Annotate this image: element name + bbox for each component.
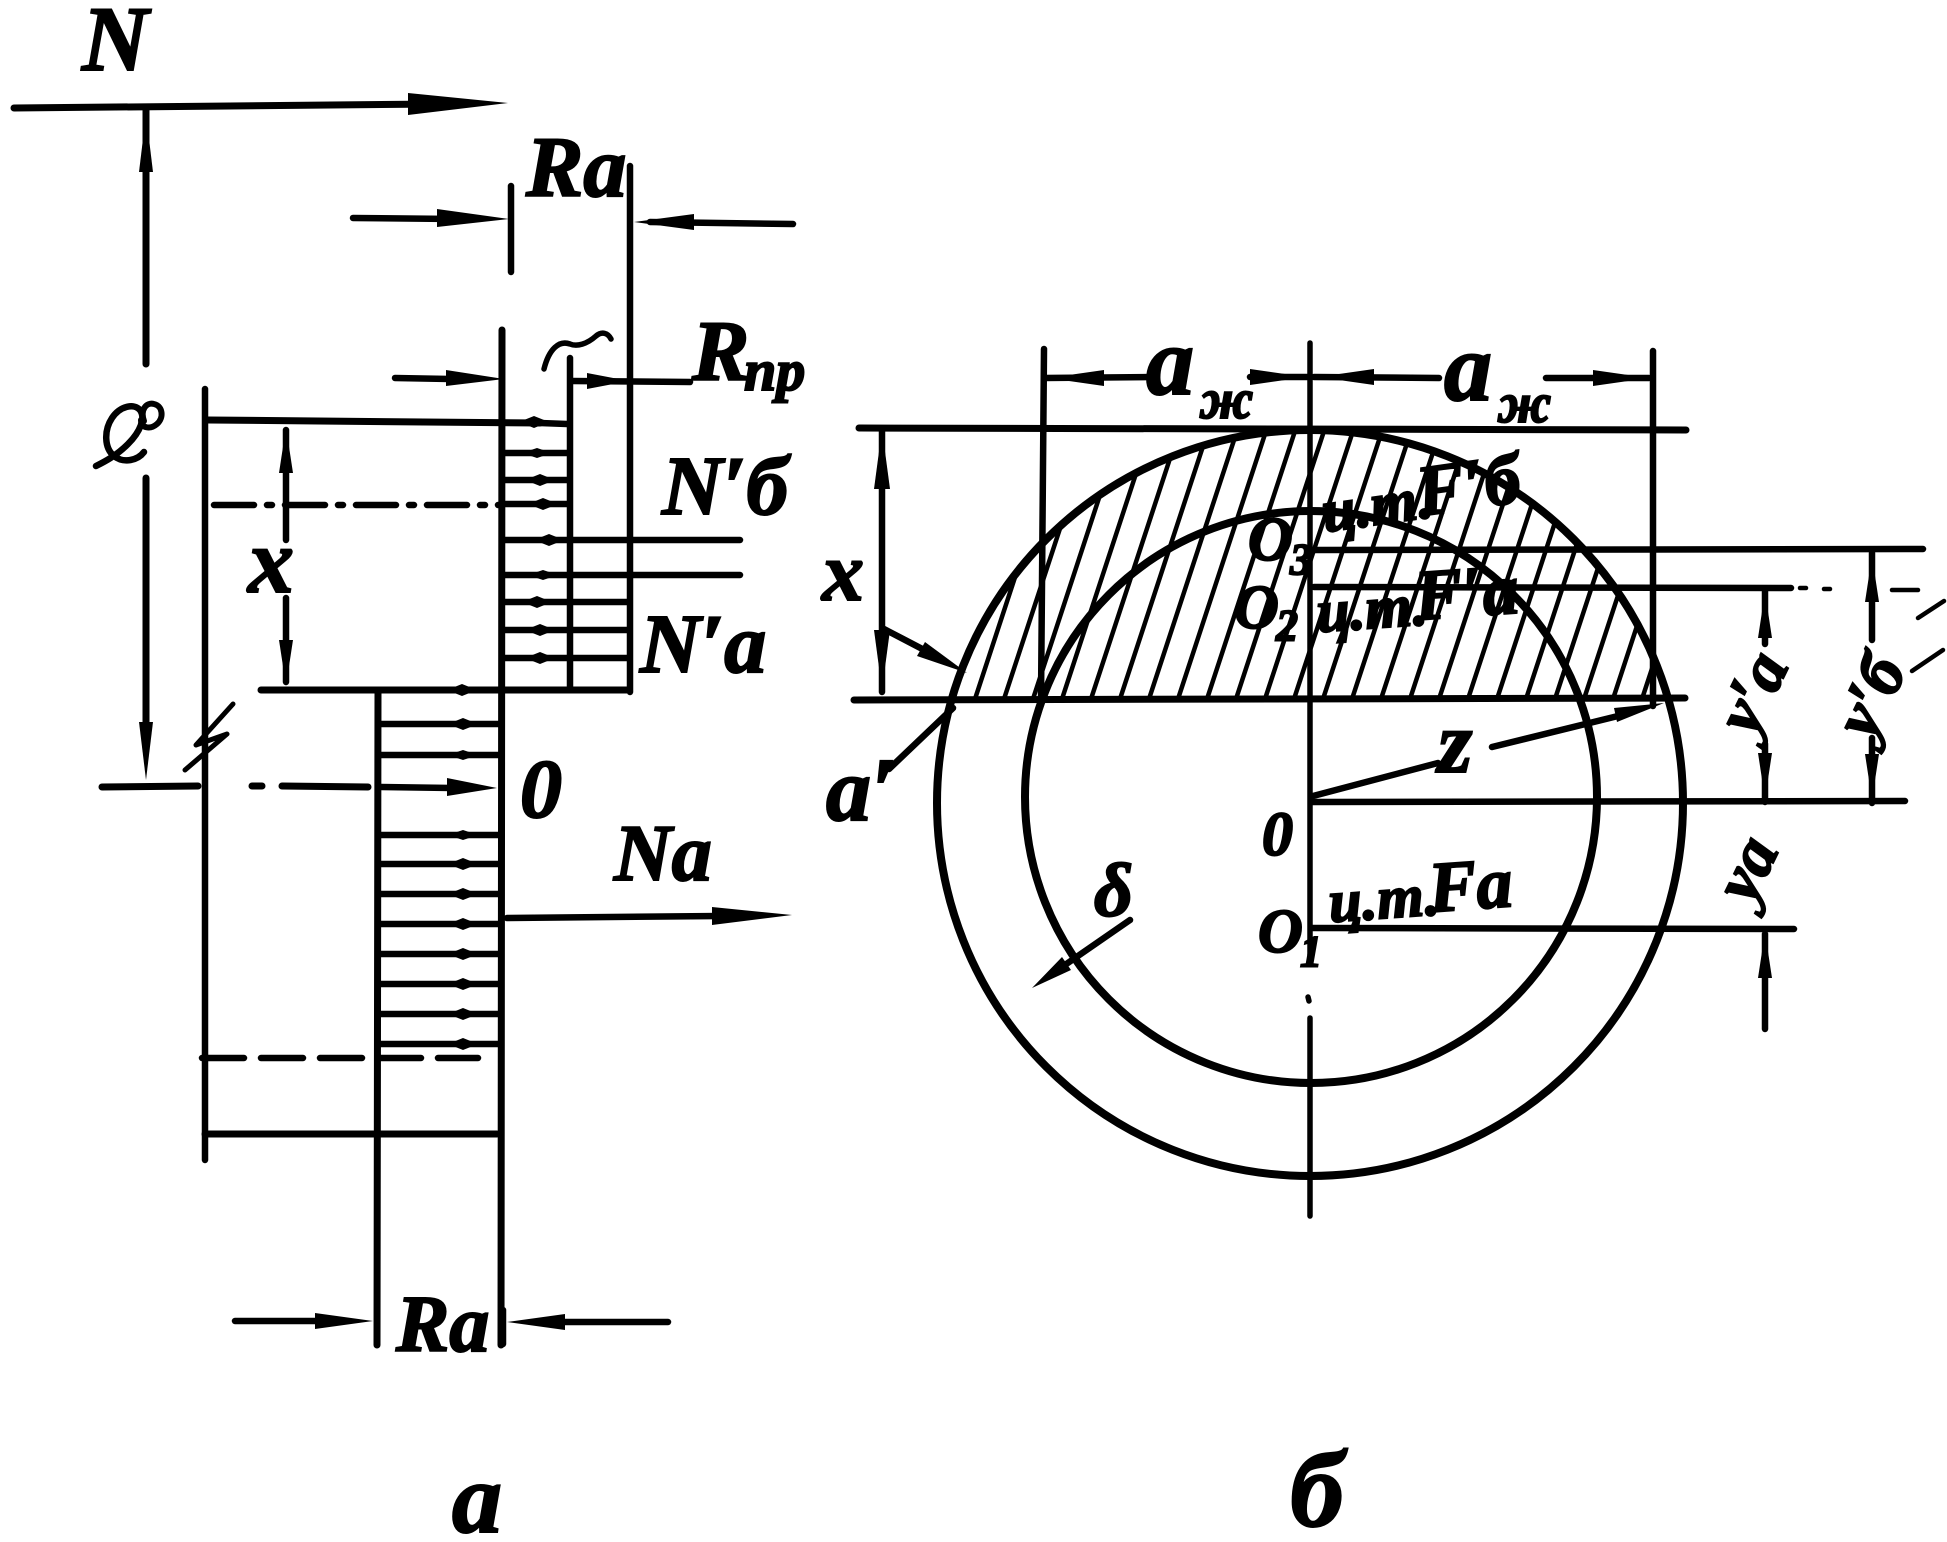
svg-text:F′a: F′a: [1411, 549, 1522, 636]
outer stress edge: [627, 166, 634, 692]
svg-text:N: N: [81, 0, 152, 90]
column left edge: [202, 389, 209, 1160]
rebar left edge: [377, 690, 378, 1345]
label b caption: [1290, 1431, 1348, 1542]
tick Ra bottom: [500, 1310, 507, 1344]
svg-text:x: x: [820, 526, 864, 619]
label c.t. Fa: [1326, 842, 1515, 935]
force arrow N: [14, 93, 508, 115]
hatching compressed zone: [946, 428, 1760, 699]
leader r: [1313, 703, 1664, 796]
boundary line: [261, 684, 628, 696]
svg-text:Fa: Fa: [1425, 842, 1515, 928]
label a_zh left: [1146, 308, 1253, 431]
label r: [1435, 695, 1472, 792]
label 0 origin: [520, 743, 562, 836]
dimension arrow Rpr right: [572, 373, 690, 389]
axis line O: [102, 778, 497, 796]
svg-text:O: O: [1234, 574, 1279, 642]
vertical centerline: [1308, 343, 1310, 1216]
label c.t. F'b: [1318, 438, 1529, 545]
label Rpr: [691, 303, 805, 403]
label Na: [613, 810, 712, 898]
leader line a-prime2: [889, 708, 953, 769]
label Ra: [525, 119, 626, 215]
label 0 center: [1262, 801, 1293, 869]
tick left ax: [1041, 349, 1044, 700]
lower stress arrows: [378, 718, 499, 1050]
svg-text:Na: Na: [613, 810, 712, 898]
label ya: [1697, 825, 1793, 919]
outer circle: [937, 430, 1683, 1176]
upper dashed axis: [214, 502, 500, 509]
top tangent line: [859, 428, 1686, 430]
column top line: [208, 416, 567, 428]
label c.t. F'a: [1314, 549, 1521, 645]
svg-text:a: a: [1146, 308, 1194, 415]
svg-text:ц.т.: ц.т.: [1326, 861, 1441, 935]
svg-text:ц.т.: ц.т.: [1314, 571, 1429, 645]
svg-text:пр: пр: [744, 338, 805, 403]
label O3: [1248, 506, 1312, 584]
svg-text:Ra: Ra: [525, 119, 626, 215]
steel edge line: [501, 330, 502, 1345]
dimension line x right: [874, 429, 890, 692]
dimension a_zh right: [1314, 369, 1649, 386]
line O2 level: [1314, 587, 1918, 590]
svg-text:N′б: N′б: [661, 440, 791, 533]
svg-text:0: 0: [520, 743, 562, 836]
inner circle: [1025, 511, 1597, 1083]
column bottom line: [205, 1131, 497, 1138]
dimension arrow Ra bottom-right: [507, 1314, 668, 1330]
svg-text:O: O: [1248, 506, 1293, 574]
dimension ya: [1758, 932, 1772, 1029]
svg-text:Ra: Ra: [395, 1281, 489, 1369]
break mark: [185, 704, 233, 770]
squiggle tau: [544, 333, 611, 369]
svg-text:R: R: [691, 303, 749, 399]
dimension arrow Ra left: [353, 209, 509, 227]
line O3 level: [1314, 549, 1923, 550]
dimension line x: [279, 427, 293, 686]
label a-prime: [826, 741, 896, 840]
label a_zh right: [1444, 314, 1551, 435]
label a caption: [452, 1443, 502, 1542]
svg-text:б: б: [1290, 1431, 1348, 1542]
svg-text:3: 3: [1289, 535, 1312, 584]
svg-text:ж: ж: [1199, 369, 1253, 431]
concrete stress edge: [567, 358, 574, 690]
label O2: [1234, 574, 1298, 650]
svg-text:2: 2: [1275, 601, 1298, 650]
svg-text:1: 1: [1300, 927, 1322, 976]
leader delta: [1032, 920, 1130, 988]
leader arrow a-prime: [884, 629, 967, 673]
label delta: [1094, 849, 1133, 933]
svg-text:x: x: [246, 510, 294, 612]
dimension line l0: [139, 108, 153, 780]
svg-text:δ: δ: [1094, 849, 1133, 933]
dimension arrow Ra bottom-left: [235, 1313, 373, 1329]
label N'a: [639, 598, 766, 691]
label O1: [1258, 898, 1322, 976]
svg-text:a′: a′: [826, 741, 896, 840]
dimension y-prime-a: [1758, 589, 1772, 802]
svg-text:O: O: [1258, 898, 1303, 966]
label y-prime-a: [1699, 640, 1803, 751]
svg-text:a: a: [1444, 314, 1492, 421]
upper stress arrows: [502, 448, 740, 664]
svg-text:z: z: [1435, 695, 1472, 792]
label x right: [820, 526, 864, 619]
dimension y-prime-b: [1865, 553, 1879, 803]
svg-text:a: a: [452, 1443, 502, 1542]
label N: [81, 0, 152, 90]
label Ra bottom: [395, 1281, 489, 1369]
tick right ax: [1650, 351, 1657, 706]
dimension arrow Rpr left: [395, 370, 504, 386]
tick Ra top: [508, 186, 515, 272]
label N'b: [661, 440, 791, 533]
svg-text:F′б: F′б: [1410, 438, 1528, 532]
dimension arrow Ra right: [634, 214, 793, 230]
svg-text:N′a: N′a: [639, 598, 766, 691]
line O level: [1312, 801, 1905, 802]
force arrow Na: [507, 907, 792, 925]
chord line a-a: [854, 698, 1685, 700]
label l0: [96, 404, 162, 466]
svg-text:ж: ж: [1497, 373, 1551, 435]
lower dashed line: [202, 1055, 478, 1062]
stray marks edge: [1912, 601, 1944, 671]
label x: [246, 510, 294, 612]
label y-prime-b: [1817, 641, 1922, 755]
dimension a_zh left: [1044, 369, 1310, 386]
svg-text:0: 0: [1262, 801, 1293, 869]
line O1 level: [1312, 928, 1794, 929]
